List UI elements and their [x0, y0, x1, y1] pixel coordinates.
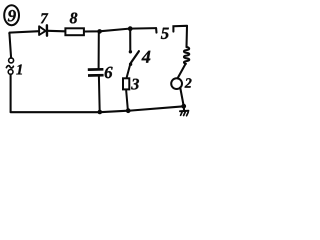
label 5 [161, 28, 169, 39]
capacitor 6 [88, 33, 104, 112]
wire from bell down to ground node [180, 88, 183, 106]
label 2 [185, 78, 192, 87]
switch 4 [127, 29, 139, 77]
junction node relay/bottom [126, 108, 131, 113]
left wire (top corner to terminal, terminal to bottom corner) [9, 33, 11, 112]
figure number 9 (circled) [4, 5, 19, 25]
junction node at capacitor branch [97, 29, 102, 34]
label 6 [105, 67, 113, 79]
label 4 [142, 51, 151, 63]
junction node at switch branch [128, 26, 133, 31]
diode 7 [39, 25, 47, 35]
label 8 [70, 13, 78, 24]
junction node ground/bottom [181, 104, 186, 109]
label 7 [41, 13, 48, 23]
bottom wire [11, 106, 184, 112]
resistor 8 (box) [65, 28, 84, 35]
AC source terminals 1 [6, 58, 13, 74]
bell / gong 2 (circle) [171, 78, 182, 89]
label 1 [16, 65, 22, 75]
connector 5 (plug gap) [156, 26, 187, 33]
wire below relay 3 [126, 91, 128, 111]
wire from coil to bell circle [178, 64, 186, 79]
ground [180, 107, 188, 116]
relay coil 3 (box) [123, 78, 129, 89]
wire from connector down to coil [185, 26, 188, 47]
coil of bell 2 (spring winding) [184, 47, 189, 64]
junction node capacitor/bottom [98, 110, 103, 115]
label 3 [131, 79, 139, 90]
top wire [9, 28, 156, 33]
